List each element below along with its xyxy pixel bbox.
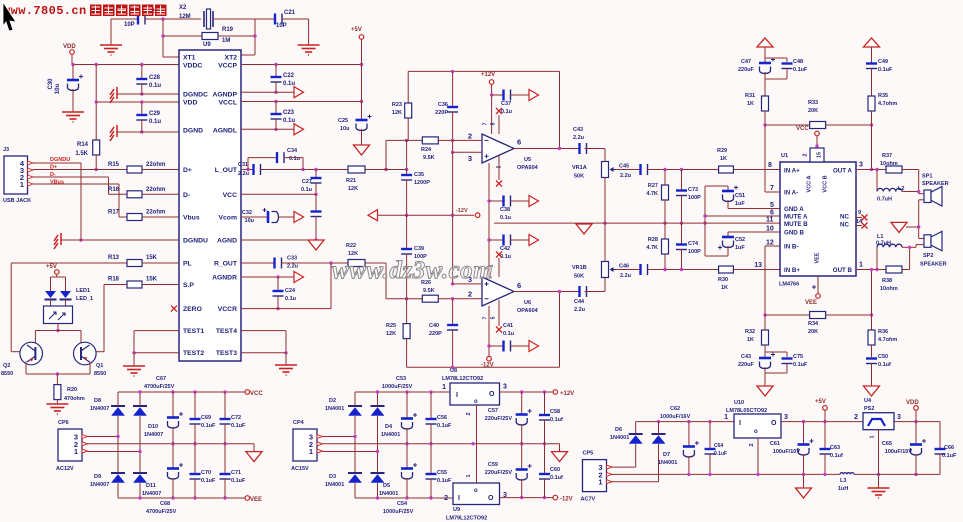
wire pin14 NC [856, 225, 862, 227]
wire pin6 output [514, 148, 580, 150]
ground port [354, 145, 370, 155]
wire [89, 362, 91, 375]
svg-text:VEE: VEE [815, 252, 821, 263]
wire pin9 NC [856, 217, 862, 219]
power VEE [245, 496, 250, 501]
svg-text:C46: C46 [619, 264, 629, 270]
svg-text:C70: C70 [201, 470, 211, 476]
svg-text:1uF: 1uF [735, 201, 745, 207]
svg-text:R16: R16 [108, 187, 120, 193]
wire [162, 19, 164, 57]
svg-text:Vbus: Vbus [183, 215, 200, 222]
svg-text:12K: 12K [392, 110, 402, 116]
svg-text:VCC B: VCC B [823, 175, 829, 192]
power +5V [359, 35, 364, 40]
wire [247, 158, 249, 170]
wire [56, 274, 58, 277]
wire pin10 [728, 231, 780, 233]
wire [385, 140, 387, 169]
svg-text:1uF: 1uF [735, 245, 745, 251]
svg-text:220uF: 220uF [738, 362, 755, 368]
op-amp U5 OPA604 [482, 134, 514, 163]
resistor R13 [127, 260, 142, 267]
wire VCC rail [118, 391, 245, 393]
wire pin6 output [514, 291, 580, 293]
potentiometer VR1A [602, 162, 609, 178]
wire [109, 193, 128, 195]
wire [878, 430, 880, 488]
svg-text:9: 9 [858, 210, 861, 216]
svg-text:VCC: VCC [796, 126, 809, 132]
wire TEST1 [134, 330, 179, 332]
ground port [796, 488, 812, 498]
wire VCCL [241, 101, 362, 103]
inductor L1 [877, 244, 902, 247]
svg-text:12K: 12K [348, 186, 358, 192]
wire [616, 169, 641, 171]
svg-text:VR1A: VR1A [572, 165, 587, 171]
wire -rail [355, 497, 448, 499]
svg-text:20K: 20K [808, 108, 818, 114]
resistor R29 [719, 166, 734, 173]
svg-text:LED_1: LED_1 [76, 296, 93, 302]
resistor R23 [407, 71, 409, 103]
svg-text:10: 10 [766, 226, 774, 233]
wire [604, 178, 606, 224]
wire [117, 483, 119, 498]
wire pin3 [476, 283, 482, 285]
svg-text:R13: R13 [108, 255, 120, 261]
connector CP5 [583, 460, 607, 492]
svg-text:C39: C39 [414, 246, 424, 252]
wire [491, 84, 493, 134]
power VCC [245, 390, 250, 395]
svg-text:SP2: SP2 [923, 253, 933, 259]
svg-text:Q2: Q2 [3, 363, 10, 369]
wire [919, 193, 924, 195]
svg-text:0.1uF: 0.1uF [942, 453, 957, 459]
svg-text:C69: C69 [201, 415, 211, 421]
svg-text:www.7805.cn: www.7805.cn [3, 4, 87, 18]
svg-text:2.2u: 2.2u [620, 173, 631, 179]
wire VCCR [241, 308, 331, 310]
wire [916, 244, 924, 246]
wire pin11 [705, 222, 780, 224]
svg-text:IN A+: IN A+ [784, 168, 800, 175]
svg-text:R33: R33 [808, 100, 818, 106]
svg-text:R_OUT: R_OUT [214, 261, 238, 268]
capacitor C34 [276, 152, 278, 163]
svg-text:U9: U9 [203, 42, 211, 48]
svg-text:+12V: +12V [481, 72, 495, 78]
svg-text:+12V: +12V [560, 391, 574, 397]
photo sensor box [50, 300, 52, 306]
wire [282, 262, 349, 264]
wire [365, 262, 386, 264]
wire [323, 436, 356, 438]
svg-text:1K: 1K [721, 285, 728, 291]
capacitor C68 [172, 444, 174, 468]
svg-text:9.5K: 9.5K [423, 155, 435, 161]
svg-text:R28: R28 [648, 237, 658, 243]
svg-text:100P: 100P [688, 195, 701, 201]
wire pin6 [705, 215, 780, 217]
svg-text:6: 6 [770, 210, 774, 217]
svg-text:S.P: S.P [183, 282, 194, 289]
svg-text:C62: C62 [670, 406, 680, 412]
svg-text:U10: U10 [734, 400, 744, 406]
svg-text:1: 1 [20, 180, 24, 189]
regulator U10 LM78L05 [734, 414, 781, 438]
svg-text:0.1uf: 0.1uf [550, 475, 563, 481]
svg-text:4.7K: 4.7K [646, 191, 658, 197]
capacitor C51 [727, 186, 729, 191]
svg-text:2: 2 [468, 290, 472, 299]
svg-text:C29: C29 [149, 111, 161, 117]
capacitor C37 [492, 94, 504, 96]
svg-text:1: 1 [309, 447, 313, 456]
ground port [246, 452, 262, 462]
svg-text:VCCL: VCCL [218, 100, 237, 107]
inductor L2 [876, 170, 878, 192]
svg-text:C49: C49 [878, 59, 888, 65]
wire [854, 473, 940, 475]
resistor R25 [406, 299, 408, 324]
wire [585, 148, 606, 150]
svg-text:I: I [458, 495, 460, 502]
resistor R22 [348, 260, 365, 267]
port AGNDL [294, 124, 304, 135]
capacitor C28 [141, 65, 143, 79]
svg-text:C43: C43 [573, 127, 583, 133]
capacitor C54 [406, 444, 408, 468]
wire Vcom [241, 216, 268, 218]
wire supply chain [488, 163, 490, 277]
wire [142, 262, 179, 264]
svg-text:LED1: LED1 [76, 288, 90, 294]
wire [894, 421, 940, 423]
svg-text:OUT A: OUT A [833, 168, 853, 175]
capacitor C33 [273, 258, 275, 269]
wire [757, 438, 759, 474]
power VCC pin15 [815, 131, 820, 136]
wire [117, 392, 119, 406]
wire [705, 185, 728, 187]
svg-text:VBus: VBus [50, 180, 64, 186]
svg-text:R37: R37 [882, 153, 892, 159]
wire DGNDU [61, 239, 179, 241]
wire [585, 291, 606, 293]
svg-text:NC: NC [840, 222, 849, 229]
svg-text:2.2u: 2.2u [573, 135, 584, 141]
wire VCCP rail [241, 64, 362, 66]
svg-text:5: 5 [770, 202, 774, 209]
wire pin1 stub [498, 156, 500, 181]
svg-text:VEE: VEE [805, 300, 817, 306]
wire pin7 [765, 191, 780, 193]
wire TEST4 [241, 330, 286, 332]
svg-text:R25: R25 [386, 323, 396, 329]
wire [377, 416, 379, 472]
svg-text:13: 13 [754, 262, 762, 269]
svg-text:C27: C27 [302, 179, 312, 185]
no-connect pin1 [496, 181, 502, 187]
svg-text:7: 7 [483, 122, 489, 125]
wire [142, 193, 179, 195]
svg-text:1: 1 [859, 262, 863, 269]
svg-text:C41: C41 [503, 323, 513, 329]
svg-text:1N4001: 1N4001 [325, 482, 344, 488]
port [529, 90, 539, 101]
svg-text:0.1uF: 0.1uF [437, 478, 452, 484]
svg-text:+5V: +5V [351, 27, 362, 33]
svg-text:R32: R32 [745, 329, 755, 335]
svg-text:220uF/25V: 220uF/25V [485, 470, 513, 476]
power +5V [823, 406, 828, 411]
power port [757, 38, 773, 47]
port [529, 235, 539, 246]
svg-text:VCCR: VCCR [218, 306, 237, 313]
svg-text:1K: 1K [747, 337, 754, 343]
svg-text:C63: C63 [830, 445, 840, 451]
svg-text:IN B-: IN B- [784, 244, 798, 251]
svg-text:L_OUT: L_OUT [215, 167, 238, 174]
diode D7 [652, 433, 666, 435]
svg-text:C54: C54 [397, 501, 408, 507]
svg-text:USB JACK: USB JACK [3, 198, 31, 204]
svg-text:0.1uf: 0.1uf [830, 453, 843, 459]
svg-text:0.1u: 0.1u [503, 331, 514, 337]
speaker SP2 [924, 235, 931, 248]
wire [476, 444, 478, 483]
svg-text:3: 3 [859, 162, 863, 169]
svg-text:AGND: AGND [217, 238, 237, 245]
svg-text:11: 11 [766, 217, 774, 224]
wire [110, 19, 112, 45]
wire L_OUT [241, 169, 254, 171]
capacitor C41 [489, 345, 504, 347]
diode D8 [111, 405, 125, 407]
svg-text:C59: C59 [488, 462, 498, 468]
capacitor C75 [765, 351, 787, 353]
digital ground [110, 87, 117, 103]
capacitor C25 [361, 65, 363, 102]
port -12V [368, 210, 378, 221]
svg-text:D5: D5 [383, 483, 390, 489]
svg-text:0.1uF: 0.1uF [231, 478, 246, 484]
capacitor C20 [137, 14, 139, 25]
svg-text:C21: C21 [284, 10, 296, 16]
svg-text:2.2u: 2.2u [238, 171, 249, 177]
svg-text:22ohm: 22ohm [146, 210, 165, 216]
svg-text:14: 14 [856, 219, 863, 225]
svg-text:50K: 50K [574, 174, 584, 180]
svg-text:NC: NC [840, 214, 849, 221]
svg-text:DGNDU: DGNDU [183, 238, 208, 245]
wire pin5 [728, 208, 780, 210]
svg-text:LM4766: LM4766 [779, 282, 799, 288]
capacitor C70 [194, 444, 196, 473]
svg-text:C52: C52 [735, 237, 745, 243]
svg-text:100uF/10V: 100uF/10V [773, 449, 801, 455]
wire [26, 373, 90, 375]
svg-text:12M: 12M [179, 14, 191, 20]
crystal X2 [203, 11, 205, 27]
svg-text:C34: C34 [287, 148, 298, 154]
power VDD [914, 406, 919, 411]
digital ground [110, 125, 117, 141]
svg-text:5: 5 [491, 122, 497, 125]
svg-text:DGNDU: DGNDU [50, 157, 70, 163]
svg-text:C22: C22 [283, 73, 295, 79]
ground [298, 45, 320, 55]
wire [142, 284, 179, 286]
wire [10, 263, 12, 352]
svg-text:GND A: GND A [784, 206, 804, 213]
power VDD [70, 50, 75, 55]
wire [906, 226, 919, 228]
capacitor C24 [277, 277, 279, 290]
wire [909, 247, 911, 269]
wire [612, 481, 659, 483]
svg-text:+5V: +5V [815, 399, 826, 405]
connector J3 USB JACK [4, 156, 28, 194]
wire IN A- feedback [764, 125, 766, 192]
svg-text:3: 3 [468, 154, 472, 163]
wire [111, 18, 138, 20]
no-connect pin5 [496, 108, 502, 114]
svg-text:C61: C61 [770, 441, 780, 447]
svg-text:R14: R14 [77, 142, 89, 148]
diode D9 [111, 472, 125, 474]
svg-text:U8: U8 [450, 368, 457, 374]
diode D11 [133, 472, 147, 474]
svg-text:1.5K: 1.5K [75, 151, 88, 157]
ground [868, 488, 890, 498]
wire [104, 284, 127, 286]
svg-text:AGNDL: AGNDL [213, 128, 237, 135]
resistor R18 [127, 281, 142, 288]
wire [406, 339, 408, 368]
svg-text:C65: C65 [882, 441, 892, 447]
resistor R30 [719, 266, 734, 273]
svg-text:AC12V: AC12V [56, 466, 74, 472]
wire [764, 47, 766, 58]
wire op-amp B pin3 [452, 152, 454, 284]
wire [330, 263, 332, 309]
svg-text:1uH: 1uH [838, 486, 848, 492]
svg-text:C68: C68 [160, 501, 170, 507]
resistor R20 [54, 385, 61, 400]
svg-text:o: o [474, 399, 478, 405]
wire pin12 [765, 245, 780, 247]
svg-text:O: O [771, 420, 777, 427]
svg-text:R35: R35 [878, 93, 888, 99]
wire [145, 18, 201, 20]
wire [616, 269, 641, 271]
wire [261, 169, 349, 171]
svg-text:C30: C30 [48, 78, 54, 90]
svg-text:100P: 100P [688, 249, 701, 255]
capacitor C32 [267, 211, 270, 223]
wire [438, 139, 476, 141]
wire [241, 54, 255, 56]
wire OUT B [856, 269, 886, 271]
capacitor C67 [172, 392, 174, 417]
mouse cursor [3, 2, 16, 31]
wire [282, 18, 309, 20]
svg-text:0.1uf: 0.1uf [550, 417, 563, 423]
svg-text:0.1u: 0.1u [501, 109, 512, 115]
no-connect pin1 [496, 327, 502, 333]
capacitor C62 [688, 422, 690, 446]
power +12V [489, 80, 494, 85]
svg-text:0.7uH: 0.7uH [876, 241, 891, 247]
svg-text:22ohm: 22ohm [146, 162, 165, 168]
wire PL [11, 262, 127, 264]
power VEE pin4 [817, 276, 819, 294]
wire [902, 169, 919, 171]
svg-text:1: 1 [870, 435, 876, 438]
wire [88, 443, 255, 445]
ground [275, 365, 297, 375]
svg-text:C24: C24 [285, 288, 296, 294]
connector CP4 [293, 429, 317, 461]
wire [765, 57, 787, 59]
wire [323, 451, 378, 453]
wire [377, 392, 379, 406]
capacitor C21 [274, 14, 276, 25]
wire +rail [355, 391, 448, 393]
wire [871, 125, 873, 170]
wire [139, 483, 141, 498]
ground port [891, 222, 907, 232]
svg-text:VCC A: VCC A [807, 176, 813, 193]
svg-text:L2: L2 [898, 186, 904, 192]
filter U4 PS2 [863, 413, 894, 430]
svg-text:DGND: DGND [183, 128, 203, 135]
resistor R19 [163, 35, 202, 37]
svg-text:C58: C58 [550, 409, 560, 415]
svg-text:-12V: -12V [560, 497, 573, 503]
wire [365, 169, 407, 171]
wire pin1 stub [498, 300, 500, 326]
svg-text:3: 3 [784, 414, 788, 421]
wire [648, 169, 719, 171]
svg-text:6: 6 [517, 138, 521, 147]
svg-text:R23: R23 [392, 102, 402, 108]
svg-text:1N4007: 1N4007 [90, 482, 109, 488]
svg-text:22ohm: 22ohm [146, 187, 165, 193]
svg-text:VDDC: VDDC [183, 63, 202, 70]
wire [88, 436, 119, 438]
svg-text:220P: 220P [435, 110, 448, 116]
svg-text:C56: C56 [437, 415, 447, 421]
svg-text:AGNDR: AGNDR [212, 275, 237, 282]
resistor R38 [886, 266, 902, 273]
wire [142, 216, 179, 218]
diode D10 [133, 405, 147, 407]
svg-text:1N4001: 1N4001 [379, 491, 398, 497]
digital ground [54, 233, 61, 249]
wire [255, 18, 275, 20]
svg-text:3: 3 [897, 414, 901, 421]
svg-text:0.1uF: 0.1uF [201, 423, 216, 429]
wire [163, 56, 179, 58]
resistor R27 [664, 170, 666, 186]
capacitor C22 [275, 65, 277, 77]
diode D3 [348, 472, 362, 474]
